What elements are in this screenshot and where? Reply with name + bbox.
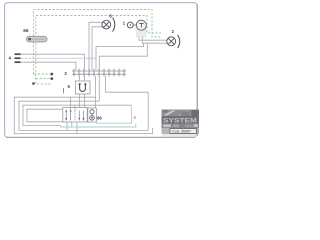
green dashed legend row 1 bbox=[34, 73, 50, 75]
wire W3 to terminal strip bbox=[21, 62, 77, 70]
motor 7 shadow box bbox=[137, 29, 147, 38]
fan 2 blade brace bbox=[178, 35, 180, 48]
wire below relay box a bbox=[66, 122, 68, 130]
svg-text:SYSTEM: SYSTEM bbox=[163, 117, 197, 124]
border right emphasis bbox=[196, 4, 198, 136]
watermark bottom band bbox=[162, 128, 200, 134]
watermark mid band bbox=[162, 124, 200, 128]
loop1 nested rectangle bbox=[14, 97, 152, 133]
green dashed legend row 3 bbox=[37, 83, 52, 85]
connector terminal pin 2 bbox=[15, 57, 21, 59]
junction dot legend row1 bbox=[50, 73, 53, 76]
wire W1 to terminal strip bbox=[21, 54, 85, 70]
meter circle bottom bbox=[90, 116, 95, 121]
green dashed bus line A (top) bbox=[21, 10, 161, 85]
loop3 nested rectangle bbox=[23, 105, 131, 125]
terminal strip 3 teeth bbox=[74, 69, 124, 77]
relay contact 2 bbox=[70, 111, 72, 121]
wire comp8 lower lead bbox=[92, 27, 103, 70]
wire staircase upper bbox=[96, 43, 144, 70]
wire strip to loop2 top bbox=[98, 76, 100, 101]
fan motor 8 (circle with X) bbox=[102, 20, 111, 29]
terminal strip 3 rails bbox=[72, 71, 126, 74]
wire staircase lower bbox=[99, 43, 147, 70]
svg-text:66: 66 bbox=[97, 116, 102, 121]
wire comp8 upper lead bbox=[89, 22, 103, 70]
wire below relay box c bbox=[76, 122, 78, 134]
relay/timer box bbox=[63, 108, 87, 123]
wire into relay box top b bbox=[74, 105, 76, 110]
wire into relay box top a bbox=[70, 97, 72, 110]
wire motor7 lead to fan2 bottom bbox=[143, 30, 167, 43]
meter bottom cross bbox=[91, 117, 94, 119]
capacitor 5 (small circle) bbox=[127, 22, 133, 28]
wire below relay box b bbox=[71, 122, 73, 127]
junction dot legend row2 bbox=[50, 77, 53, 80]
page border frame bbox=[5, 3, 197, 138]
Cod box bbox=[170, 129, 197, 134]
green dashed segment wire W2 bbox=[21, 57, 34, 59]
page background bbox=[0, 0, 200, 141]
meter box bbox=[88, 108, 97, 122]
fan motor 2 (circle with X) bbox=[167, 37, 176, 46]
relay contact 5 bbox=[82, 111, 84, 121]
svg-text:Cod. 30067: Cod. 30067 bbox=[172, 130, 191, 134]
svg-text:S: S bbox=[133, 115, 136, 120]
watermark block bbox=[162, 110, 200, 137]
motor 7 (circle with T) bbox=[136, 20, 146, 30]
relay contact 3 bbox=[74, 111, 76, 121]
meter link bbox=[91, 114, 93, 116]
wire W2 faint continuation bbox=[34, 57, 96, 59]
wire comp6 top leads bbox=[79, 76, 81, 81]
green dashed bus line B (second) bbox=[36, 16, 161, 84]
fan 8 blade brace bbox=[113, 18, 115, 32]
relay contact 4 bbox=[78, 111, 80, 121]
border bottom emphasis bbox=[6, 137, 195, 139]
loop4 nested rectangle bbox=[27, 109, 63, 122]
wire comp6 bottom leads bbox=[79, 94, 81, 108]
wire capacitor to motor bbox=[133, 24, 136, 26]
relay contact 1 bbox=[65, 110, 84, 120]
connector terminal pin 3 bbox=[15, 61, 21, 63]
stray tick wire bbox=[63, 88, 65, 94]
solenoid 6 box bbox=[76, 81, 91, 94]
SYSTEM text band bbox=[162, 116, 200, 124]
fuse holder 66 (grey pill) bbox=[27, 36, 48, 42]
green dashed legend row 2 bbox=[36, 78, 50, 80]
connector terminal pin 1 bbox=[15, 53, 21, 55]
wire motor7 lead to fan2 top bbox=[139, 30, 167, 40]
loop2 nested rectangle bbox=[19, 101, 148, 130]
wire strip to right loop bbox=[106, 76, 149, 130]
svg-text:66: 66 bbox=[23, 28, 29, 33]
teal wire sensor loop bbox=[60, 105, 136, 127]
meter circle top bbox=[90, 110, 94, 114]
wire strip to loop1 top / meter feed bbox=[95, 76, 97, 108]
solenoid 6 horseshoe bbox=[80, 84, 86, 91]
junction dot on bus at row2 corner bbox=[32, 82, 35, 85]
